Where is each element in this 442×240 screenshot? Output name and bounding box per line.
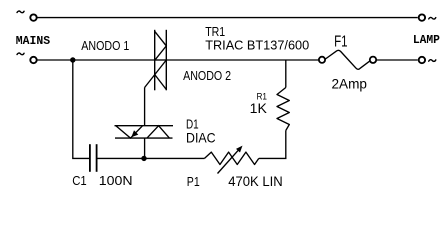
tilde bottom-right — [429, 60, 436, 62]
wire between triac bars — [155, 59, 167, 61]
wire gate vertical to diac — [144, 88, 146, 126]
wire mains to triac — [37, 59, 155, 61]
svg-text:ANODO 2: ANODO 2 — [183, 68, 231, 83]
svg-text:DIAC: DIAC — [186, 129, 216, 145]
triac TR1 left bar — [154, 30, 156, 91]
triac TR1 right bar — [165, 30, 167, 91]
diac D1 bottom bar — [115, 137, 173, 139]
terminal top-left mains — [30, 14, 36, 20]
wire bottom C1 to pot — [97, 157, 205, 159]
potentiometer wiper arrow line — [218, 148, 241, 173]
junction node diac bottom — [141, 156, 146, 161]
wire R1 top lead — [285, 60, 287, 88]
capacitor C1 left plate — [89, 144, 91, 172]
potentiometer P1 zigzag — [205, 152, 259, 164]
svg-text:470K LIN: 470K LIN — [228, 174, 283, 189]
svg-text:F1: F1 — [334, 33, 348, 50]
tilde mid-left — [17, 53, 24, 55]
svg-text:TRIAC BT137/600: TRIAC BT137/600 — [205, 38, 309, 53]
svg-text:ANODO 1: ANODO 1 — [81, 38, 129, 53]
triac lower triangle upper edge extended as gate lead — [145, 60, 167, 88]
svg-text:C1: C1 — [72, 173, 87, 188]
terminal top-right lamp — [419, 14, 425, 20]
capacitor C1 right plate — [96, 144, 98, 172]
wire top mains-to-lamp — [37, 17, 418, 19]
diac D1 top bar — [115, 125, 174, 127]
terminal bottom-left mains — [30, 57, 36, 63]
fuse F1 element wave — [325, 50, 369, 69]
pot arrow head — [236, 146, 243, 153]
svg-text:100N: 100N — [99, 173, 133, 188]
wire pot to R1 bottom corner — [259, 131, 286, 159]
fuse F1 left circle — [319, 57, 325, 63]
wire left vertical drop to C1 — [73, 60, 90, 158]
triac lower triangle lower edge — [155, 75, 167, 90]
diac arrow head — [131, 130, 138, 137]
wire triac to fuse — [166, 59, 318, 61]
fuse F1 right circle — [370, 57, 376, 63]
terminal bottom-right lamp — [419, 57, 425, 63]
wire diac bottom feed — [144, 138, 146, 158]
tilde top-right — [429, 17, 436, 19]
diac right triangle — [147, 126, 169, 138]
tilde top-left — [17, 11, 24, 13]
svg-text:LAMP: LAMP — [413, 33, 440, 47]
svg-text:MAINS: MAINS — [16, 34, 50, 48]
triac upper triangle — [155, 31, 167, 60]
svg-text:1K: 1K — [250, 100, 268, 116]
diac left triangle — [116, 126, 143, 138]
svg-text:P1: P1 — [187, 174, 200, 189]
junction node anode1 branch — [70, 57, 75, 62]
svg-text:2Amp: 2Amp — [332, 77, 368, 92]
wire fuse to lamp terminal — [377, 59, 418, 61]
resistor R1 zigzag — [277, 88, 289, 131]
